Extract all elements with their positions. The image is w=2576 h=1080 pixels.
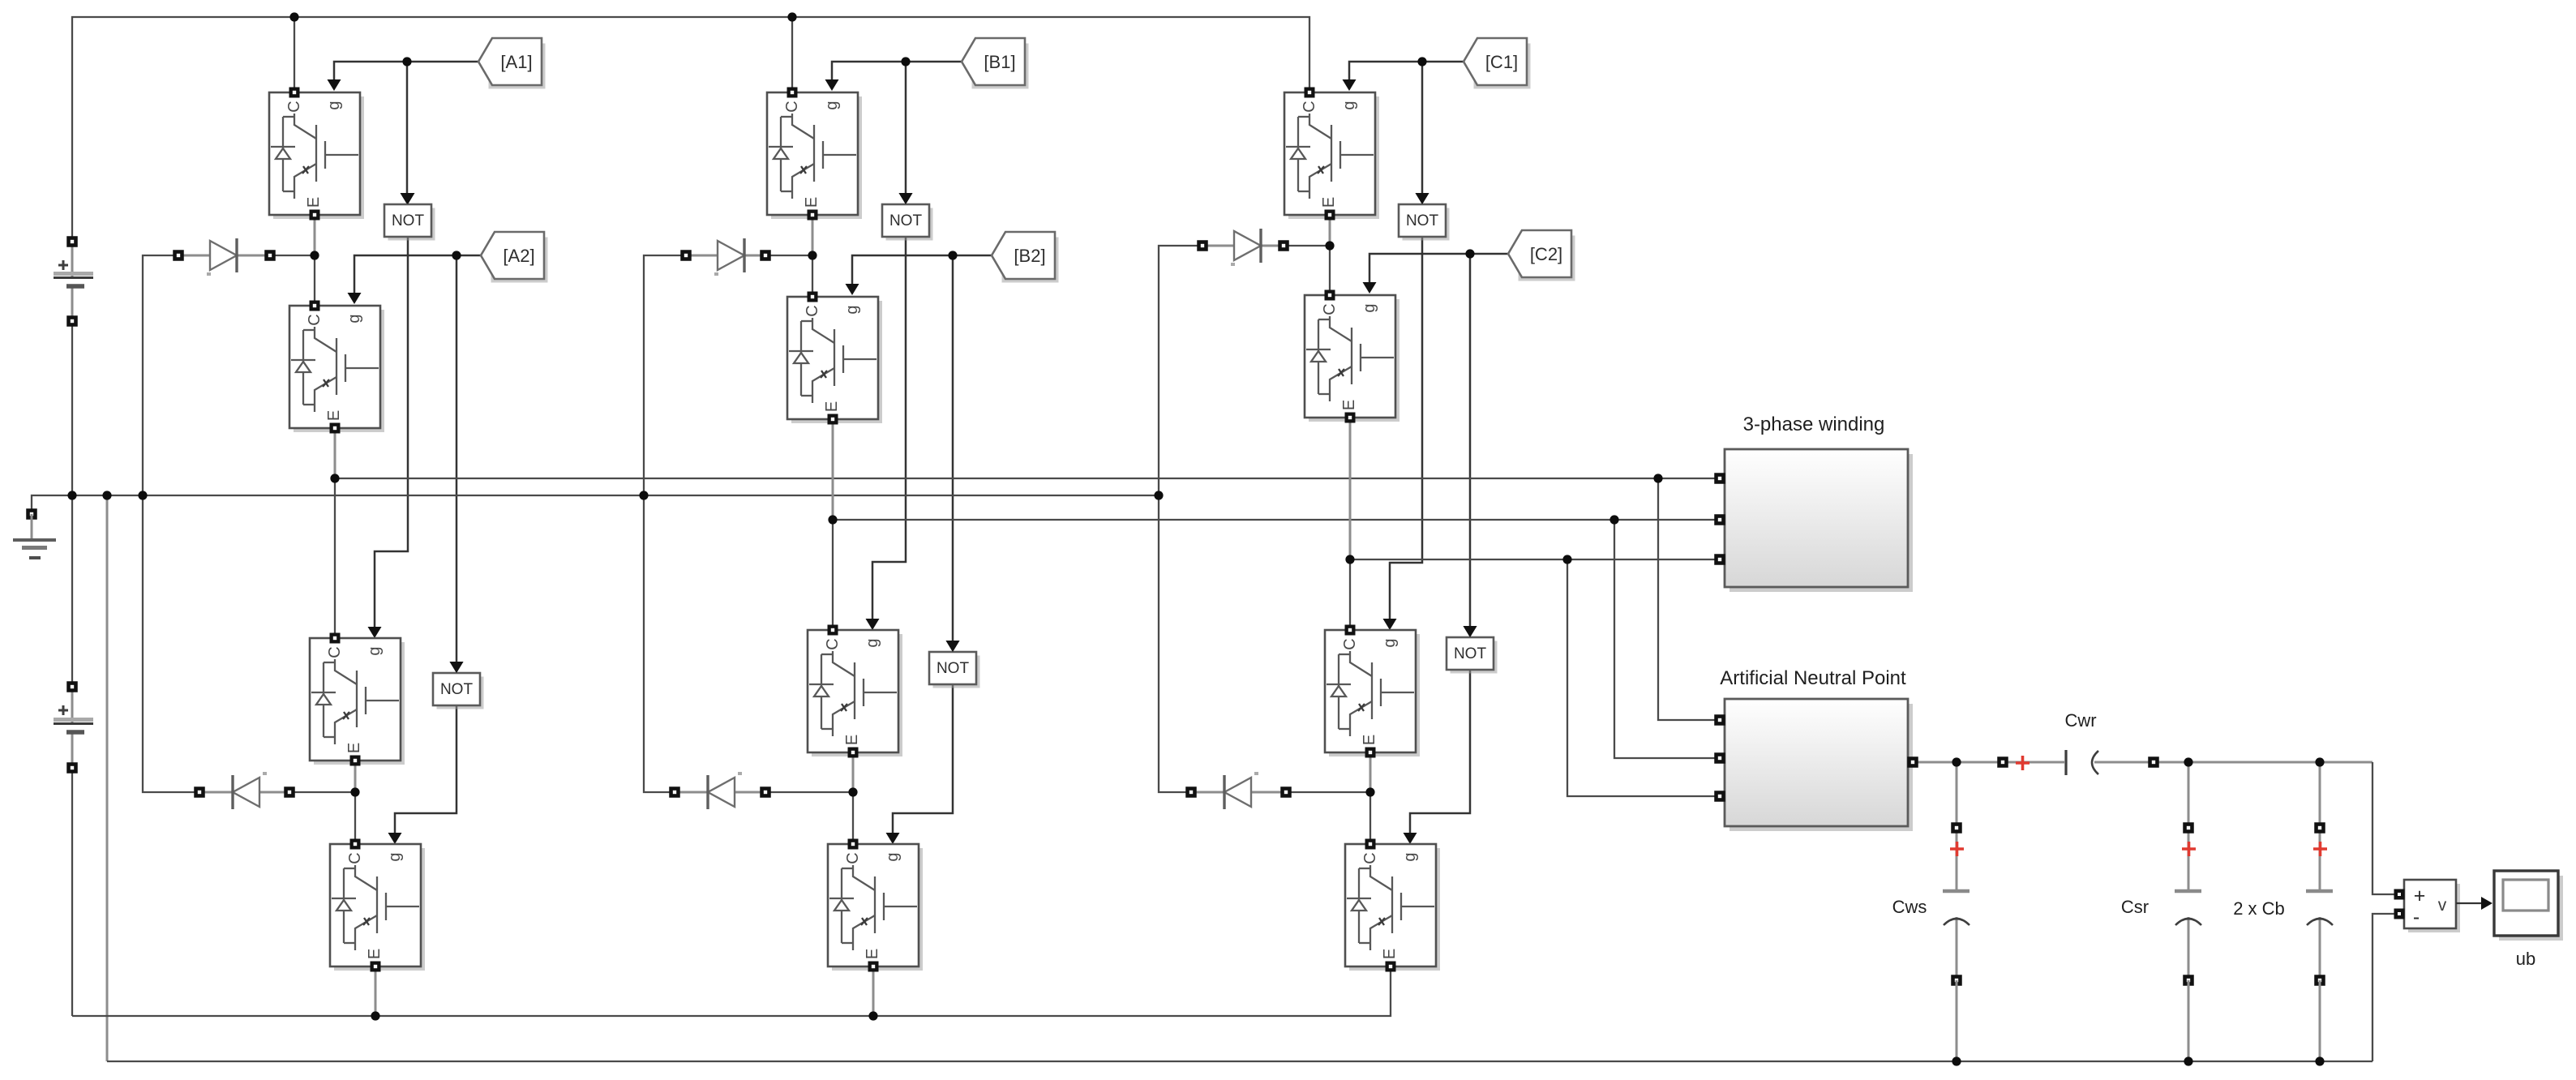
- svg-text:v: v: [2438, 896, 2447, 915]
- svg-text:g: g: [884, 852, 902, 861]
- svg-text:g: g: [823, 101, 841, 109]
- svg-text:g: g: [1401, 852, 1419, 861]
- svg-text:g: g: [864, 638, 881, 647]
- svg-text:g: g: [1340, 101, 1358, 109]
- svg-text:g: g: [366, 646, 384, 655]
- svg-text:C: C: [824, 638, 842, 649]
- svg-text:E: E: [366, 949, 384, 959]
- svg-text:E: E: [823, 401, 841, 412]
- svg-text:C: C: [804, 305, 821, 316]
- svg-text:C: C: [1321, 303, 1339, 315]
- svg-text:E: E: [325, 410, 343, 421]
- svg-text:g: g: [1361, 303, 1378, 312]
- svg-text:E: E: [345, 743, 363, 753]
- svg-text:C: C: [285, 101, 303, 112]
- svg-text:E: E: [1320, 197, 1338, 208]
- svg-text:C: C: [1361, 852, 1379, 864]
- svg-text:C: C: [1301, 101, 1318, 112]
- svg-text:g: g: [325, 101, 343, 109]
- svg-text:[B1]: [B1]: [984, 52, 1015, 72]
- svg-text:g: g: [345, 314, 363, 323]
- svg-text:NOT: NOT: [937, 660, 970, 677]
- svg-text:C: C: [1341, 638, 1359, 649]
- svg-text:E: E: [803, 197, 821, 208]
- svg-text:E: E: [843, 735, 861, 745]
- svg-text:[B2]: [B2]: [1014, 246, 1045, 266]
- svg-text:NOT: NOT: [1454, 645, 1487, 662]
- svg-text:[C2]: [C2]: [1530, 244, 1562, 264]
- svg-text:g: g: [843, 305, 861, 314]
- svg-text:[C1]: [C1]: [1485, 52, 1518, 72]
- svg-text:Cwr: Cwr: [2064, 710, 2096, 731]
- svg-text:E: E: [305, 197, 323, 208]
- svg-text:+: +: [2414, 885, 2426, 907]
- svg-text:ub: ub: [2516, 949, 2535, 969]
- svg-text:Csr: Csr: [2121, 897, 2149, 917]
- svg-text:2 x Cb: 2 x Cb: [2233, 898, 2285, 919]
- svg-text:NOT: NOT: [440, 681, 474, 698]
- svg-text:Artificial Neutral Point: Artificial Neutral Point: [1720, 667, 1906, 689]
- svg-text:3-phase winding: 3-phase winding: [1743, 414, 1885, 435]
- svg-text:g: g: [1381, 638, 1399, 647]
- svg-text:E: E: [1361, 735, 1378, 745]
- svg-text:NOT: NOT: [392, 212, 425, 229]
- svg-text:E: E: [1340, 400, 1358, 410]
- svg-text:[A2]: [A2]: [503, 246, 534, 266]
- svg-text:[A1]: [A1]: [500, 52, 532, 72]
- svg-text:E: E: [864, 949, 881, 959]
- svg-text:-: -: [2413, 906, 2420, 928]
- svg-text:C: C: [346, 852, 364, 864]
- svg-text:C: C: [783, 101, 801, 112]
- svg-text:g: g: [386, 852, 404, 861]
- svg-text:C: C: [306, 314, 324, 325]
- svg-text:Cws: Cws: [1892, 897, 1927, 917]
- svg-text:C: C: [326, 646, 344, 658]
- svg-text:E: E: [1381, 949, 1399, 959]
- svg-text:NOT: NOT: [889, 212, 923, 229]
- svg-text:NOT: NOT: [1406, 212, 1439, 229]
- svg-text:C: C: [844, 852, 862, 864]
